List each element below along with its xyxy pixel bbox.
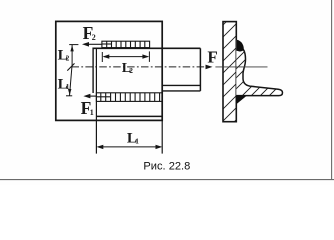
bar bottom edge <box>96 115 162 117</box>
weld fillet bottom (section, black) <box>236 95 246 104</box>
vertical dimension L2 segment <box>69 45 78 67</box>
svg-text:Рис. 22.8: Рис. 22.8 <box>143 160 190 172</box>
svg-text:2: 2 <box>66 54 70 63</box>
weld fillet top (section, black) <box>236 40 243 52</box>
bar right edge <box>199 48 201 91</box>
weld seam strip L1 (bottom) <box>96 93 162 102</box>
page border bottom <box>0 179 334 181</box>
force F2 arrow <box>82 42 102 47</box>
flange edge strip bottom line <box>162 90 200 92</box>
gusset wall section <box>214 2 246 142</box>
bottom dimension L1 <box>99 146 161 148</box>
angle bar cross-section <box>228 36 307 96</box>
bar left edge <box>92 48 94 94</box>
svg-text:1: 1 <box>66 82 70 91</box>
svg-text:1: 1 <box>135 136 139 145</box>
axis line (right view) <box>215 66 267 68</box>
force F arrow <box>206 65 213 70</box>
dim arrow down <box>68 89 71 95</box>
L1 extension line left (lower rect left edge) <box>95 48 97 153</box>
svg-text:F: F <box>207 48 217 67</box>
flange edge strip top line <box>162 84 200 86</box>
dim arrow up <box>70 45 73 51</box>
L1 extension line right / plate right edge lower part <box>161 120 163 153</box>
weld seam strip L2 (top) <box>102 41 150 47</box>
horizontal dimension L2 <box>102 51 149 62</box>
force F1 arrow <box>83 94 96 99</box>
page border right <box>331 0 333 180</box>
svg-text:2: 2 <box>92 33 96 42</box>
centerline axis (dash-dot) <box>72 66 208 68</box>
gusset plate (front view) <box>56 21 162 120</box>
bar (angle side view) top edge <box>93 47 200 49</box>
vertical dimension L1 segment <box>66 63 75 95</box>
svg-text:1: 1 <box>90 108 94 117</box>
svg-text:2: 2 <box>129 66 133 75</box>
